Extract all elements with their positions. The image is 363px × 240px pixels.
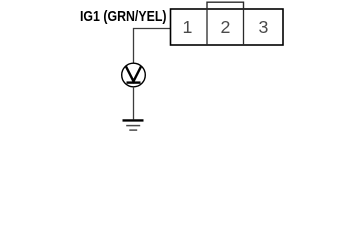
connector cavity divider 1-2 (206, 9, 208, 45)
connector body (171, 9, 284, 45)
svg-text:3: 3 (259, 17, 269, 37)
svg-text:IG1 (GRN/YEL): IG1 (GRN/YEL) (80, 9, 167, 25)
svg-text:2: 2 (221, 17, 231, 37)
svg-text:1: 1 (183, 17, 193, 37)
pin number 3 (259, 17, 269, 37)
net label IG1 (GRN/YEL) (80, 9, 167, 25)
ground (123, 120, 144, 130)
connector cavity divider 2-3 (243, 9, 245, 45)
pin number 2 (221, 17, 231, 37)
connector keying tab above pin 2 (207, 2, 244, 9)
wire from voltmeter to ground (133, 87, 135, 120)
voltmeter V1 (122, 63, 146, 87)
wire from pin 1 to voltmeter (134, 29, 171, 64)
pin number 1 (183, 17, 193, 37)
